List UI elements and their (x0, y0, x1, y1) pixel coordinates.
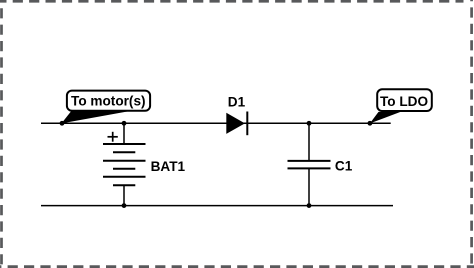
junction dot A (motor tap) (60, 121, 65, 126)
diode D1 cathode bar (246, 112, 248, 136)
wire battery top stub (123, 123, 125, 144)
svg-text:D1: D1 (228, 94, 246, 109)
wire battery bottom stub (123, 185, 125, 205)
wire capacitor bottom stub (308, 168, 310, 205)
svg-text:BAT1: BAT1 (151, 159, 186, 174)
callout To motor(s) pointer (62, 111, 131, 123)
svg-text:C1: C1 (335, 159, 353, 174)
battery plus sign (108, 132, 118, 142)
svg-text:To LDO: To LDO (380, 94, 428, 109)
diode D1 (226, 113, 245, 134)
junction dot D (LDO tap) (368, 121, 373, 126)
junction dot F (capacitor bottom) (307, 203, 312, 208)
wire capacitor top stub (308, 123, 310, 161)
junction dot B (battery top) (122, 121, 127, 126)
battery BAT1 (103, 144, 146, 185)
svg-text:To motor(s): To motor(s) (71, 94, 146, 109)
junction dot E (battery bottom) (122, 203, 127, 208)
wire bottom rail (41, 205, 393, 207)
callout To LDO pointer (370, 112, 401, 124)
callout To motor(s) box (67, 91, 150, 111)
capacitor C1 (288, 161, 331, 169)
junction dot C (capacitor top) (307, 121, 312, 126)
wire top rail (41, 122, 391, 124)
callout To LDO box (377, 89, 432, 111)
